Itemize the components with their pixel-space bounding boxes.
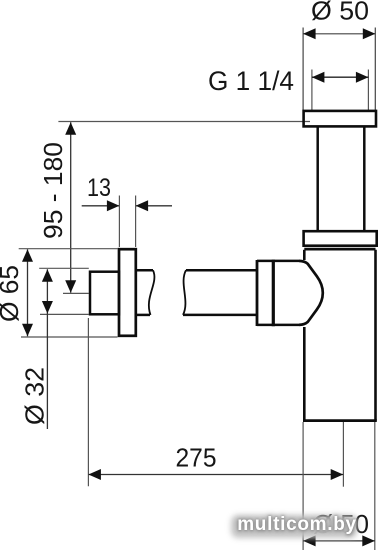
horizontal pipe bottom line — [183, 314, 256, 317]
dimension line Ø65 — [27, 249, 29, 336]
extension line bottom Ø32 — [40, 313, 89, 315]
extension line right 13 — [135, 196, 137, 248]
extension line bottom Ø65 — [21, 336, 118, 338]
arrow right G 1 1/4 — [356, 72, 369, 83]
extension line right of G 1 1/4 dimension — [367, 70, 369, 111]
dimension line bottom Ø50 — [303, 540, 375, 542]
horizontal pipe top line — [186, 269, 256, 272]
reference line from sink level to flange — [58, 121, 310, 123]
arrow left-pointing 13 — [136, 200, 149, 211]
dimension line top Ø50 — [303, 33, 375, 35]
body cup left wall lower segment — [303, 327, 306, 421]
watermark multicom.by — [230, 511, 364, 538]
arrow left top Ø50 — [303, 28, 316, 39]
extension line left bottom Ø50 — [302, 422, 304, 550]
arrow right-pointing 13 — [107, 200, 120, 211]
pipe break S-curve first — [149, 270, 155, 315]
svg-text:Ø 65: Ø 65 — [0, 265, 24, 322]
extension line left of top Ø50 dimension — [302, 28, 304, 111]
dimension line Ø32 with leader down to label — [46, 269, 48, 429]
arrow left G 1 1/4 — [312, 72, 325, 83]
dimension tail right of 13 — [136, 205, 172, 207]
arrow right top Ø50 — [363, 28, 376, 39]
top flange of siphon (sink connection) — [304, 111, 376, 127]
arrow up Ø65 — [22, 249, 33, 261]
svg-text:95 - 180: 95 - 180 — [38, 142, 68, 239]
arrow down Ø65 — [22, 324, 33, 337]
wall pipe stub — [90, 272, 119, 315]
extension line left 275 (wall plane) — [87, 318, 89, 486]
arrow up Ø32 — [42, 269, 53, 282]
thick separator line body top — [304, 248, 375, 251]
extension line right 275 (body axis) — [342, 422, 344, 487]
pipe segment from flange bottom line — [137, 314, 151, 317]
nut divider thick line — [272, 260, 275, 327]
svg-text:Ø 32: Ø 32 — [20, 367, 50, 425]
dimension line G 1 1/4 — [312, 76, 369, 78]
inlet dome into body — [299, 261, 323, 325]
body cup right wall — [374, 250, 377, 421]
vertical inlet pipe left wall — [316, 126, 319, 231]
extension line right bottom Ø50 — [374, 422, 376, 550]
arrow down Ø32 — [42, 301, 53, 314]
extension line top Ø65 — [19, 248, 118, 250]
body cup left wall upper segment — [303, 250, 306, 260]
dimension line 95-180 — [70, 122, 72, 292]
svg-text:G 1 1/4: G 1 1/4 — [208, 66, 294, 96]
arrow left 275 — [88, 469, 101, 480]
pipe segment from flange top line — [137, 269, 154, 272]
arrow down 95-180 — [65, 280, 76, 293]
dimension line 275 — [88, 474, 343, 476]
pipe break S-curve second — [183, 270, 186, 315]
wall escutcheon flange — [119, 249, 136, 336]
svg-text:Ø 50: Ø 50 — [311, 0, 369, 26]
extension line right of top Ø50 dimension — [374, 28, 376, 111]
watermark band — [231, 515, 357, 538]
svg-text:275: 275 — [176, 443, 217, 473]
body top nut flange — [304, 231, 377, 246]
compression nut left face — [256, 260, 259, 326]
nut top edge — [257, 260, 299, 263]
arrow right bottom Ø50 — [362, 535, 375, 546]
extension line left of G 1 1/4 dimension — [311, 70, 313, 111]
svg-text:13: 13 — [87, 174, 111, 202]
arrow left bottom Ø50 — [303, 535, 316, 546]
dimension tail left of 13 — [82, 205, 120, 207]
pipe axis tick — [63, 292, 89, 294]
body cup bottom edge — [303, 419, 377, 422]
vertical inlet pipe right wall — [363, 126, 366, 231]
arrow up 95-180 — [65, 122, 76, 135]
extension line top Ø32 — [39, 267, 89, 269]
arrow right 275 — [331, 469, 344, 480]
nut bottom edge — [257, 324, 299, 327]
extension line left 13 — [118, 196, 120, 248]
